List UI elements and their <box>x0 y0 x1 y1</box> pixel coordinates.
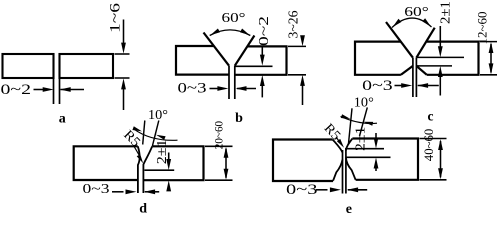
gap extension line right (part a) <box>59 78 61 104</box>
right groove face upper (part c) <box>416 28 434 58</box>
label c <box>428 108 434 123</box>
svg-text:10°: 10° <box>148 107 168 122</box>
left groove face upper (part c) <box>386 22 413 58</box>
svg-text:40~60: 40~60 <box>421 129 436 162</box>
left plate (part c) <box>355 42 413 75</box>
thickness extension top (part a) <box>115 53 130 55</box>
label e <box>346 202 352 217</box>
thickness ext bottom (part c) <box>480 74 497 76</box>
left groove upper wall with R5 (part e) <box>333 140 343 153</box>
root gap line left (part b) <box>228 66 230 99</box>
groove angle arc (part b) <box>210 29 251 36</box>
root face dim arrow bottom (part d) <box>166 180 171 191</box>
root face dim arrow top (part b) <box>260 48 265 66</box>
root gap label 0~3 (part b) <box>178 81 207 97</box>
bevel angle line right (part e) <box>360 107 368 136</box>
root gap line right (part b) <box>234 66 236 99</box>
svg-text:12~60: 12~60 <box>475 12 489 45</box>
root face dim arrow bottom (part e) <box>374 158 379 172</box>
root face label 2+-1 (part e) <box>352 127 367 151</box>
left root face line (part e) <box>342 150 344 194</box>
thickness ext top (part b) <box>288 45 306 47</box>
groove angle arc (part c) <box>392 18 432 27</box>
label a <box>59 112 66 127</box>
gap dim arrow right (part c) <box>417 83 439 88</box>
right plate (part d) <box>143 146 203 180</box>
groove angle label 60 (part c) <box>404 4 429 19</box>
gap dim arrow left (part e) <box>316 187 341 192</box>
svg-text:3~26: 3~26 <box>286 10 301 38</box>
svg-text:2±1: 2±1 <box>352 127 367 151</box>
thickness label 40~60 (part e) <box>421 129 436 162</box>
root gap line right (part c) <box>415 58 417 97</box>
bevel angle arc (part e) <box>341 114 378 126</box>
thickness dim arrow top (part a) <box>121 20 126 54</box>
root face ext line upper (part c) <box>416 56 464 58</box>
thickness dim arrow top (part b) <box>300 35 305 46</box>
root face dim arrow top (part e) <box>374 133 379 149</box>
thickness dim arrow bottom (part b) <box>300 75 305 105</box>
svg-text:c: c <box>428 108 434 123</box>
thickness ext top (part d) <box>205 145 233 147</box>
thickness ext top (part e) <box>420 138 447 140</box>
svg-text:d: d <box>139 201 147 215</box>
root face label 2+-1 (part d) <box>154 139 169 164</box>
thickness label 1~6 (part a) <box>108 3 124 33</box>
svg-text:0~2: 0~2 <box>257 16 272 46</box>
label d <box>139 201 147 216</box>
gap dim arrow left (part b) <box>210 86 229 91</box>
right plate (part c) <box>416 42 478 75</box>
left plate (part a) <box>3 54 54 78</box>
thickness ext bottom (part e) <box>420 179 447 181</box>
bevel angle line left (part d) <box>143 121 145 145</box>
groove angle label 60 (part b) <box>222 10 246 25</box>
root face dim arrow bottom (part c) <box>438 66 443 96</box>
dimension arrow right (part a) <box>60 87 84 92</box>
svg-text:10°: 10° <box>354 95 374 110</box>
left plate (part b) <box>176 46 229 75</box>
svg-text:0~3: 0~3 <box>83 182 110 197</box>
left plate (part d) <box>74 146 138 180</box>
radius leader arrow (part d) <box>134 146 143 163</box>
thickness dim line (part c) <box>489 42 494 74</box>
thickness label 12~60 (part c) <box>475 12 489 45</box>
gap dim arrow right (part b) <box>236 86 257 91</box>
right groove upper wall with R5 (part e) <box>346 139 353 151</box>
root gap label 0~3 (part d) <box>83 182 110 197</box>
svg-text:0~3: 0~3 <box>286 182 318 198</box>
gap dim arrow left (part d) <box>112 189 137 194</box>
svg-text:0~3: 0~3 <box>178 81 207 97</box>
svg-text:20~60: 20~60 <box>211 121 225 149</box>
gap extension line left (part a) <box>53 78 55 104</box>
right groove lower wall with R5 (part e) <box>346 158 356 180</box>
svg-text:1~6: 1~6 <box>108 3 124 33</box>
bevel angle line right (part d) <box>152 121 158 147</box>
root face ext line (part d) <box>144 169 174 171</box>
label b <box>235 111 243 126</box>
right plate (part e) <box>352 139 418 180</box>
root face ext line lower (part e) <box>346 156 390 158</box>
root gap label 0~3 (part e) <box>286 182 318 198</box>
root face label 0~2 (part b) <box>257 16 272 46</box>
root face dim arrow top (part d) <box>166 153 171 171</box>
thickness label 20~60 (part d) <box>211 121 225 149</box>
svg-text:60°: 60° <box>222 10 246 25</box>
thickness ext bottom (part d) <box>205 179 233 181</box>
svg-text:e: e <box>346 202 352 215</box>
left groove face (part b) <box>204 33 230 66</box>
thickness ext bottom (part b) <box>288 74 306 76</box>
root gap label 0~3 (part c) <box>362 78 393 94</box>
thickness ext top (part c) <box>480 41 497 43</box>
svg-text:0~2: 0~2 <box>1 82 32 98</box>
svg-text:2±1: 2±1 <box>439 1 454 24</box>
root face dim arrow top (part c) <box>438 26 443 57</box>
thickness extension bottom (part a) <box>115 77 130 79</box>
gap dim arrow left (part c) <box>395 83 413 88</box>
left plate (part e) <box>273 140 333 182</box>
bevel angle line left (part e) <box>348 108 352 144</box>
root gap line left (part c) <box>412 58 414 97</box>
radius label R5 (part d) <box>121 127 144 150</box>
root face ext line upper (part e) <box>346 148 384 150</box>
svg-text:60°: 60° <box>404 4 429 19</box>
bevel angle label 10 (part e) <box>354 95 374 110</box>
root face ext line lower (part c) <box>416 65 452 67</box>
right plate (part a) <box>60 54 114 78</box>
gap dim arrow right (part d) <box>144 189 159 194</box>
right plate (part b) <box>235 46 287 74</box>
right groove face (part b) <box>235 36 255 66</box>
radius label R5 (part e) <box>321 120 344 143</box>
thickness dim arrow bottom (part a) <box>121 78 126 110</box>
thickness dim line (part d) <box>224 147 229 180</box>
bevel angle arc (part d) <box>132 126 177 140</box>
radius leader arrow (part e) <box>336 137 344 148</box>
left groove lower wall with R5 (part e) <box>333 160 342 181</box>
gap dim arrow right (part e) <box>347 187 367 192</box>
left groove wall with R5 fillet (part d) <box>138 146 140 193</box>
root face label 2+-1 (part c) <box>439 1 454 24</box>
thickness dim line (part e) <box>438 139 443 179</box>
bevel angle label 10 (part d) <box>148 107 168 122</box>
root gap label 0~2 (part a) <box>1 82 32 98</box>
right root face line (part e) <box>345 148 347 194</box>
root face extension line (part b) <box>235 65 273 67</box>
svg-text:0~3: 0~3 <box>362 78 393 94</box>
root face dim arrow bottom (part b) <box>260 75 265 97</box>
thickness label 3~26 (part b) <box>286 10 301 38</box>
svg-text:a: a <box>59 112 66 127</box>
svg-text:b: b <box>235 111 243 126</box>
right groove wall with R5 fillet (part d) <box>143 146 152 193</box>
dimension arrow left (part a) <box>34 87 54 92</box>
